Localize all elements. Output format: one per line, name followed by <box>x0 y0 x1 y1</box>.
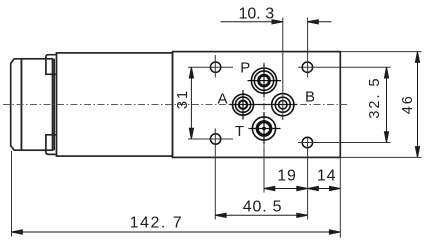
svg-text:31: 31 <box>175 89 191 109</box>
svg-text:46: 46 <box>400 94 416 114</box>
svg-text:19: 19 <box>277 168 296 185</box>
svg-text:14: 14 <box>317 168 336 185</box>
svg-text:40. 5: 40. 5 <box>243 199 283 216</box>
svg-text:142. 7: 142. 7 <box>130 214 183 231</box>
svg-text:T: T <box>235 123 244 140</box>
svg-text:32. 5: 32. 5 <box>367 76 383 118</box>
svg-text:A: A <box>217 91 227 108</box>
svg-text:B: B <box>305 89 315 106</box>
svg-text:P: P <box>240 60 250 77</box>
svg-text:10. 3: 10. 3 <box>239 6 275 23</box>
